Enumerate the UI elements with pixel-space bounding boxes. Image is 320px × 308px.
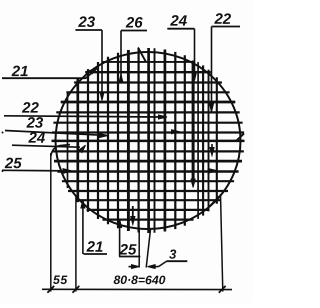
svg-text:24: 24 — [28, 130, 46, 147]
svg-text:25: 25 — [4, 155, 22, 172]
svg-text:22: 22 — [213, 11, 231, 28]
svg-text:3: 3 — [169, 247, 177, 262]
svg-text:21: 21 — [11, 63, 29, 80]
svg-text:55: 55 — [53, 273, 68, 287]
svg-text:25: 25 — [119, 241, 137, 258]
svg-text:26: 26 — [125, 14, 143, 31]
svg-text:24: 24 — [169, 13, 187, 30]
svg-text:21: 21 — [86, 239, 104, 256]
svg-text:23: 23 — [77, 14, 95, 31]
svg-text:80·8=640: 80·8=640 — [114, 273, 166, 287]
